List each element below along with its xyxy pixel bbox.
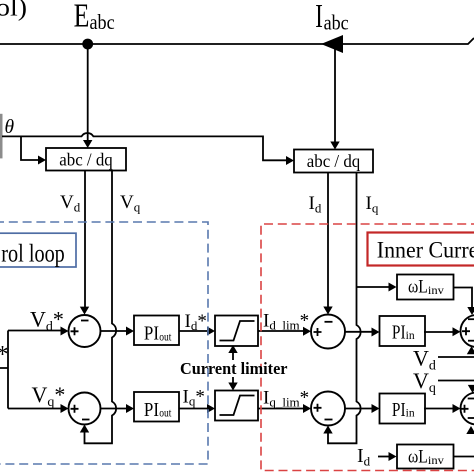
- svg-text:out: out: [159, 331, 172, 343]
- arrow: V_q feedforward into top of S6: [468, 385, 474, 393]
- wire I_q: abc/dq #2 down, branch to wL_inv, hops, to bottom of summer S5: [328, 173, 361, 444]
- arrow: Current limiter label to L2: [232, 377, 234, 383]
- svg-text:abc: abc: [324, 11, 349, 35]
- summer S1 (V_d): [69, 315, 101, 347]
- svg-text:abc: abc: [90, 10, 115, 34]
- svg-text:*: *: [0, 342, 9, 368]
- block PI_out2: [134, 392, 179, 422]
- node: E_abc tap junction: [82, 39, 93, 50]
- block wL_inv #1: [397, 275, 454, 300]
- svg-text:ωL: ωL: [408, 277, 428, 298]
- wire: I_abc down to abc/dq #2: [334, 44, 336, 142]
- wire: S5 to PI_in2 (I_q wire hops over): [345, 408, 372, 410]
- wire: L2 to summer S5 (I_q_lim*): [258, 408, 304, 410]
- block PI_in2: [380, 394, 426, 424]
- PLL block edge (cut off at left): [0, 114, 3, 159]
- svg-text:PI: PI: [392, 322, 406, 343]
- svg-text:PI: PI: [144, 400, 159, 421]
- svg-text:E: E: [74, 0, 90, 35]
- block PI_out1: [134, 316, 179, 346]
- wire: S1 to PI_out1 (V_q wire hops over): [101, 330, 127, 332]
- wire: PI_in1 to summer S4: [424, 331, 453, 333]
- summer S3 (I_d): [311, 315, 345, 349]
- wire I_d: abc/dq #2 to summer S3: [327, 173, 329, 308]
- svg-text:I: I: [315, 0, 323, 35]
- block PI_in1: [380, 316, 426, 346]
- svg-text:PI: PI: [144, 324, 159, 345]
- arrow: V_d feedforward into bottom of S4: [467, 346, 474, 354]
- wire: wL_inv #1 output into top of S4: [454, 288, 473, 308]
- svg-text:in: in: [406, 330, 415, 342]
- inner loop boundary (red dashed): [261, 224, 474, 471]
- svg-text:Current limiter: Current limiter: [180, 359, 288, 378]
- summer S2 (V_q): [69, 393, 101, 425]
- wire: E_abc down to abc/dq #1: [87, 44, 89, 141]
- wire: PI_out1 to limiter L1: [179, 330, 208, 332]
- wire: theta branch to abc/dq #1: [21, 136, 38, 160]
- arrow: Current limiter label to L1: [232, 353, 234, 361]
- outer loop title box: [0, 233, 76, 267]
- wire: S3 to PI_in1 (I_q wire hops over): [345, 331, 372, 333]
- wire: PI_out2 to limiter L2: [179, 408, 208, 410]
- svg-text:inv: inv: [428, 285, 444, 297]
- wire: V_q feedforward line: [438, 380, 474, 382]
- wire: wL_inv #2 output toward bottom of S6: [454, 456, 474, 458]
- inner loop title box: [368, 233, 474, 266]
- svg-text:in: in: [406, 408, 415, 420]
- block L2: current limiter (saturation): [215, 391, 258, 421]
- wire: I_q branch into wL_inv #1: [357, 286, 390, 288]
- svg-text:out: out: [159, 408, 172, 420]
- svg-text:Inner Current loop: Inner Current loop: [377, 238, 474, 264]
- summer S6 (output q-axis, cut at edge): [461, 393, 474, 425]
- summer S4 (output d-axis, cut at edge): [461, 315, 474, 347]
- block wL_inv #2: [397, 445, 454, 469]
- svg-text:θ: θ: [5, 117, 15, 138]
- svg-text:rol loop: rol loop: [1, 241, 65, 268]
- svg-text:inv: inv: [428, 455, 444, 467]
- wire: I_d into wL_inv #2: [378, 456, 389, 458]
- svg-text:ωL: ωL: [408, 446, 428, 467]
- wire V_q: abc/dq #1 down, hops, to bottom of summer S2: [85, 171, 117, 444]
- wire: three-phase bus E_abc/I_abc: [0, 38, 474, 44]
- wire: PI_in2 to summer S6: [424, 408, 453, 410]
- wire: S2 to PI_out2 (V_q wire hops over): [101, 408, 127, 410]
- wire: theta line with hop over E wire: [2, 133, 286, 160]
- svg-text:PI: PI: [392, 400, 406, 421]
- svg-text:ol): ol): [0, 0, 27, 22]
- summer S5 (I_q): [311, 392, 345, 426]
- svg-text:abc / dq: abc / dq: [307, 151, 361, 171]
- arrow: I_abc flow direction on bus: [321, 35, 343, 53]
- wire V_d: abc/dq #1 to summer S1: [84, 171, 86, 308]
- svg-text:abc / dq: abc / dq: [59, 150, 113, 170]
- block L1: current limiter (saturation): [215, 316, 258, 347]
- wire: V_d feedforward line: [438, 356, 474, 358]
- wire: L1 to summer S3 (I_d_lim*): [258, 330, 304, 332]
- block U2: abc/dq transform #2: [294, 150, 373, 173]
- block U1: abc/dq transform #1: [46, 148, 126, 171]
- wire: reference input rail V*: [0, 331, 61, 409]
- outer loop boundary (blue dashed): [0, 222, 208, 464]
